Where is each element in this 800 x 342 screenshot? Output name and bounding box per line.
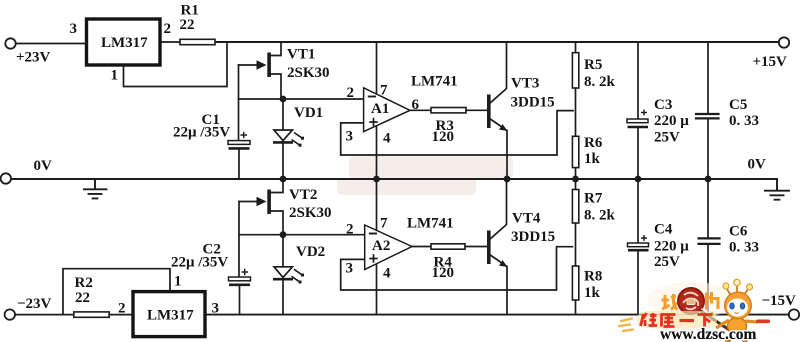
wire node A horizontal (239, 98, 364, 100)
watermark mascot feet (725, 339, 731, 342)
junction VD1/VT2 0V (280, 176, 287, 183)
diode VD2 triangle (274, 267, 292, 278)
svg-text:3: 3 (70, 21, 78, 37)
capacitor C3 wires (637, 42, 639, 179)
diode VD2 cathode bar (273, 278, 293, 281)
opamp A2 minus sign (369, 233, 377, 235)
svg-text:1k: 1k (584, 151, 601, 167)
watermark mascot arm right (745, 321, 757, 322)
transistor VT1 gate wire (239, 64, 258, 66)
svg-text:LM741: LM741 (407, 216, 454, 232)
junction C3/C4 0V (635, 176, 642, 183)
svg-text:1: 1 (111, 68, 119, 84)
diode VD1 wires (282, 99, 284, 179)
watermark magnifier handle (700, 311, 731, 332)
svg-text:7: 7 (380, 83, 388, 99)
watermark mascot eyes (730, 303, 735, 309)
svg-text:0. 33: 0. 33 (729, 113, 759, 129)
svg-text:C4: C4 (654, 222, 673, 238)
watermark text weiku glow (637, 311, 717, 328)
resistor R3 (431, 108, 466, 113)
watermark char pian (707, 292, 719, 310)
svg-text:C5: C5 (729, 97, 747, 113)
diode VD2 wires (282, 235, 284, 315)
svg-text:8. 2k: 8. 2k (584, 74, 616, 90)
wire R3 to VT3 base (466, 109, 487, 111)
ground right (765, 179, 789, 200)
svg-text:0V: 0V (34, 158, 53, 174)
svg-text:VT4: VT4 (512, 211, 541, 227)
ic U1 LM317 box (87, 19, 161, 65)
watermark mascot leaf (710, 312, 714, 316)
diode VD1 led arrows (292, 133, 303, 146)
svg-text:4: 4 (383, 266, 391, 282)
svg-text:R7: R7 (584, 191, 603, 207)
resistor R7 wires (575, 179, 577, 315)
transistor VT3 collector (490, 42, 507, 104)
capacitor C2 plus plate (229, 277, 251, 281)
svg-text:220 μ: 220 μ (654, 113, 689, 129)
svg-text:22μ /35V: 22μ /35V (171, 255, 228, 271)
watermark char yi (680, 319, 695, 322)
wire R2 to U2 pin2 (109, 314, 133, 316)
watermark mascot head (725, 292, 752, 319)
transistor VT4 emitter (490, 255, 508, 315)
opamp A1 pin3 loop (341, 111, 573, 155)
watermark mascot arm left (716, 320, 729, 328)
diode VD1 triangle (274, 130, 292, 141)
terminal +15V (779, 37, 789, 47)
watermark motion dashes (619, 319, 633, 332)
svg-text:www.dzsc.com: www.dzsc.com (660, 326, 757, 342)
svg-text:220 μ: 220 μ (654, 239, 689, 255)
opamp A1 plus sign (369, 118, 377, 126)
svg-text:VT3: VT3 (511, 76, 539, 92)
capacitor C1 plus plate (228, 141, 250, 145)
transistor VT3 emitter arrow (499, 124, 508, 131)
svg-text:120: 120 (432, 265, 455, 281)
diode VD2 led arrows (292, 269, 303, 282)
watermark char ku (661, 315, 676, 327)
wire U2 pin1 ADJ loop (63, 269, 170, 315)
svg-text:2: 2 (164, 21, 172, 37)
watermark mascot red item (756, 320, 770, 324)
wire U1 pin1 ADJ loop (124, 42, 228, 87)
junction VT3/VT4 0V (504, 176, 511, 183)
capacitor C4 plus plate (628, 243, 649, 247)
resistor R5 wires (575, 42, 577, 179)
wire +23V input (16, 43, 87, 45)
transistor VT1 drain wire (270, 42, 281, 56)
resistor R2 (74, 312, 109, 317)
watermark mascot antenna bulbs (723, 283, 729, 289)
transistor VT1 gate arrow (257, 60, 267, 69)
svg-text:22: 22 (180, 17, 195, 33)
wire -23V input (15, 314, 74, 316)
diode VD1 cathode bar (273, 141, 293, 144)
wire node B horizontal (239, 234, 365, 236)
transistor VT3 bar (487, 95, 491, 129)
watermark stamp circle (678, 288, 704, 314)
opamp A1 output wire (410, 109, 431, 111)
svg-text:7: 7 (380, 216, 388, 232)
wire bottom rail (205, 314, 789, 316)
svg-text:120: 120 (432, 129, 455, 145)
capacitor C5 wires (707, 42, 709, 179)
capacitor C6 plates (699, 238, 720, 244)
transistor VT4 bar (487, 231, 491, 265)
opamp A2 pin3 loop (341, 247, 573, 290)
capacitor C2 minus plate (229, 283, 250, 286)
transistor VT2 drain wire (270, 179, 283, 193)
watermark char wei (641, 313, 658, 326)
watermark url (0, 0, 1, 1)
svg-text:8. 2k: 8. 2k (584, 208, 616, 224)
wire 0V rail (11, 178, 777, 180)
junction dots 0V rail and nodes (280, 96, 712, 239)
terminal -15V (789, 309, 799, 319)
opamp A2 triangle (365, 225, 412, 270)
capacitor C2 plus sign (242, 269, 249, 275)
opamp A2 output wire (412, 246, 431, 248)
wire gate to C2 vertical (238, 202, 240, 278)
svg-text:A1: A1 (371, 101, 389, 117)
svg-text:1k: 1k (584, 285, 601, 301)
svg-text:3: 3 (346, 129, 354, 145)
junction C5/C6 0V (705, 176, 712, 183)
svg-text:1: 1 (174, 274, 182, 290)
opamp A2 pin4 wire (376, 263, 378, 315)
svg-text:2: 2 (118, 301, 126, 317)
wire gate to C1 vertical (238, 65, 240, 141)
watermark mascot antenna stalks (727, 285, 749, 296)
junction R6/R7 0V (572, 176, 579, 183)
opamp A1 pin7 wire (376, 42, 378, 95)
svg-text:VT1: VT1 (287, 47, 315, 63)
capacitor C3 minus plate (628, 126, 649, 129)
opamp A1 triangle (364, 88, 410, 132)
watermark mascot legs (729, 333, 744, 340)
capacitor C6 wires (707, 179, 709, 315)
resistor R5 (572, 53, 578, 88)
capacitor C1 plus sign (241, 132, 248, 138)
svg-text:25V: 25V (654, 130, 680, 146)
watermark mascot mouth (735, 312, 739, 315)
ground left (84, 179, 107, 198)
transistor VT3 emitter (490, 119, 508, 180)
svg-text:LM741: LM741 (411, 74, 458, 90)
capacitor C1 minus plate (229, 147, 250, 150)
svg-text:3: 3 (346, 261, 354, 277)
opamp A1 minus sign (368, 96, 376, 98)
watermark glow (648, 282, 736, 318)
node B dot (280, 231, 287, 238)
watermark char xia (698, 315, 713, 328)
capacitor C3 plus sign (641, 110, 647, 116)
watermark char zhao (662, 294, 678, 310)
watermark pale blob lower (337, 178, 476, 195)
svg-text:A2: A2 (372, 238, 390, 254)
svg-text:2SK30: 2SK30 (289, 205, 332, 221)
watermark mascot body (728, 318, 747, 335)
watermark stamp chip (683, 293, 698, 310)
svg-text:2: 2 (347, 85, 355, 101)
svg-text:R8: R8 (584, 269, 602, 285)
transistor VT2 gate wire (239, 201, 257, 203)
capacitor C4 plus sign (641, 235, 647, 241)
watermark pale blob upper (349, 156, 513, 179)
node A dot (280, 96, 287, 103)
svg-text:C6: C6 (729, 224, 748, 240)
resistor R1 (180, 39, 215, 44)
svg-text:3: 3 (212, 301, 220, 317)
opamp A2 plus sign (369, 254, 377, 262)
capacitor C4 minus plate (628, 249, 649, 252)
svg-text:0. 33: 0. 33 (729, 240, 759, 256)
svg-text:22: 22 (75, 290, 90, 306)
wire LM317 U1 pin2 to R1 (160, 41, 180, 43)
svg-text:C3: C3 (654, 97, 672, 113)
watermark mascot face (727, 299, 748, 317)
wire C2 to -15 rail (239, 286, 241, 315)
transistor VT1 source wire (270, 74, 281, 99)
resistor R8 (572, 266, 578, 300)
svg-text:−15V: −15V (762, 293, 797, 309)
resistor R6 (572, 136, 578, 167)
svg-text:25V: 25V (654, 254, 680, 270)
wire R4 to VT4 base (465, 246, 487, 248)
wire C1 to 0V (238, 150, 240, 179)
transistor VT4 emitter arrow (499, 260, 508, 267)
opamp A2 pin7 wire (376, 179, 378, 231)
terminal +23V (5, 38, 15, 48)
terminal 0V left (1, 173, 11, 183)
svg-text:+15V: +15V (753, 54, 788, 70)
transistor VT2 bar (267, 190, 271, 215)
transistor VT2 source wire (270, 211, 283, 235)
svg-text:6: 6 (412, 97, 420, 113)
transistor VT4 collector (490, 179, 507, 240)
svg-text:4: 4 (383, 131, 391, 147)
terminal -23V (5, 309, 15, 319)
wire top rail (215, 41, 779, 43)
capacitor C5 plates (696, 114, 719, 118)
svg-text:VD2: VD2 (296, 244, 325, 260)
transistor VT2 gate arrow (257, 197, 267, 206)
junction opamp supply 0V (373, 176, 380, 183)
svg-text:22μ /35V: 22μ /35V (173, 125, 230, 141)
svg-text:3DD15: 3DD15 (511, 229, 555, 245)
svg-text:R5: R5 (584, 57, 602, 73)
svg-text:2: 2 (346, 222, 354, 238)
svg-text:R2: R2 (75, 275, 93, 291)
svg-text:LM317: LM317 (101, 35, 148, 51)
svg-text:R6: R6 (584, 135, 603, 151)
svg-text:VT2: VT2 (289, 187, 317, 203)
svg-text:VD1: VD1 (294, 105, 323, 121)
svg-text:2SK30: 2SK30 (287, 65, 330, 81)
svg-text:LM317: LM317 (147, 308, 194, 324)
resistor R7 (572, 190, 578, 224)
transistor VT1 bar (267, 53, 271, 78)
svg-text:+23V: +23V (16, 50, 51, 66)
svg-text:−23V: −23V (17, 296, 52, 312)
resistor R4 (431, 244, 465, 249)
opamp A1 pin4 wire (376, 126, 378, 180)
svg-text:3DD15: 3DD15 (511, 95, 555, 111)
capacitor C3 plus plate (627, 119, 648, 123)
ic U2 LM317 box (133, 292, 205, 337)
capacitor C4 wires (637, 179, 639, 315)
svg-text:0V: 0V (748, 157, 767, 173)
